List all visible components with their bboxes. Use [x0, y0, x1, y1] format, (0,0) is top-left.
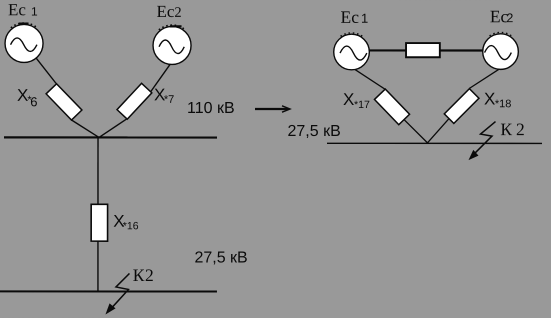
svg-text:*18: *18 [495, 98, 512, 110]
svg-text:Ec: Ec [8, 0, 26, 19]
svg-text:27,5 кВ: 27,5 кВ [194, 249, 247, 266]
svg-text:27,5 кВ: 27,5 кВ [288, 123, 341, 140]
svg-text:X: X [343, 90, 354, 109]
svg-text:Ec: Ec [157, 2, 175, 21]
svg-text:К2: К2 [133, 265, 155, 285]
svg-text:2: 2 [506, 11, 513, 25]
svg-text:*16: *16 [123, 220, 139, 232]
svg-text:*7: *7 [164, 94, 174, 106]
svg-text:2: 2 [174, 5, 181, 21]
svg-text:X: X [484, 89, 495, 108]
svg-text:1: 1 [31, 5, 38, 19]
svg-text:2: 2 [516, 119, 525, 139]
svg-text:Ec: Ec [341, 7, 360, 27]
svg-text:1: 1 [361, 11, 368, 26]
svg-text:*17: *17 [354, 99, 370, 111]
svg-text:110 кВ: 110 кВ [187, 100, 235, 117]
svg-text:6: 6 [30, 94, 37, 109]
svg-text:К: К [500, 119, 512, 139]
